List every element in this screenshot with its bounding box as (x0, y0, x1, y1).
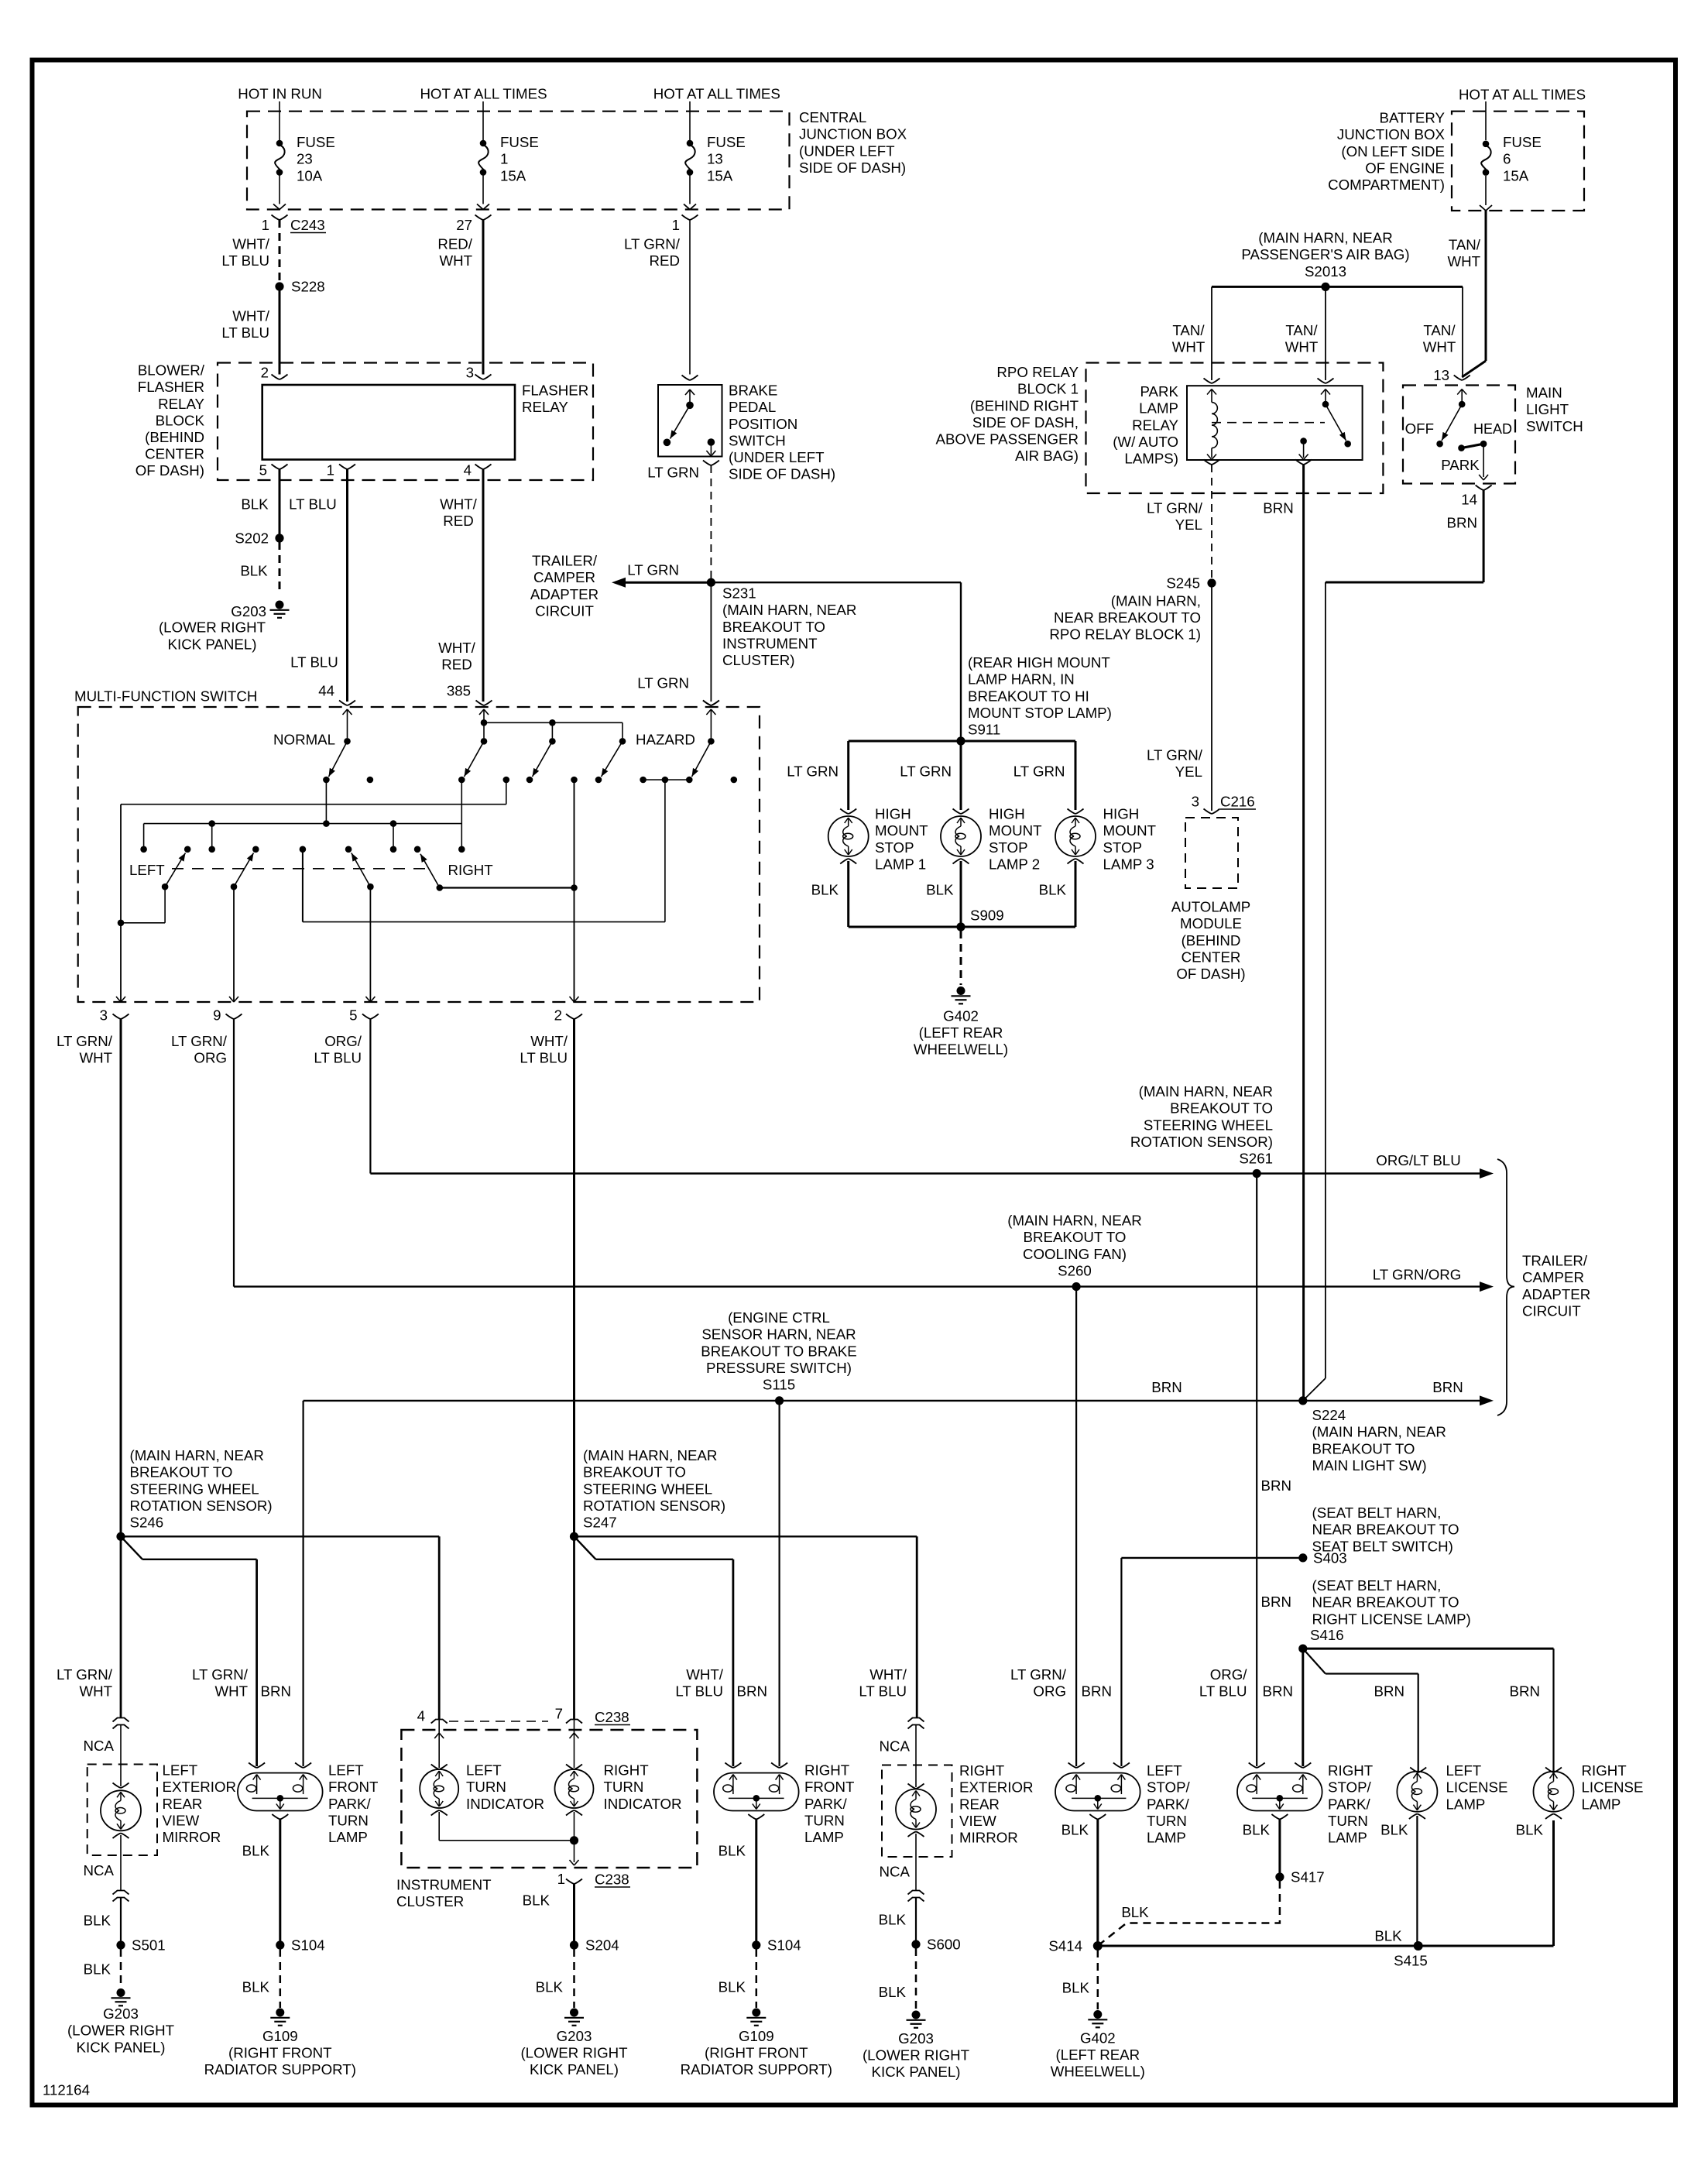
svg-text:LAMP: LAMP (804, 1829, 844, 1845)
svg-text:FLASHER: FLASHER (522, 383, 588, 399)
svg-text:FUSE: FUSE (1503, 134, 1542, 150)
svg-text:ORG: ORG (194, 1050, 227, 1066)
svg-text:G203: G203 (557, 2028, 592, 2044)
svg-text:LT GRN: LT GRN (647, 465, 699, 481)
svg-text:TRAILER/: TRAILER/ (532, 553, 598, 569)
svg-text:S224: S224 (1312, 1407, 1346, 1423)
svg-text:SENSOR HARN, NEAR: SENSOR HARN, NEAR (701, 1326, 856, 1343)
svg-text:BREAKOUT TO: BREAKOUT TO (1170, 1100, 1273, 1117)
svg-text:WHEELWELL): WHEELWELL) (1051, 2064, 1145, 2080)
svg-text:BLK: BLK (1039, 882, 1067, 898)
svg-text:RIGHT LICENSE LAMP): RIGHT LICENSE LAMP) (1312, 1611, 1471, 1627)
svg-text:BLK: BLK (926, 882, 954, 898)
svg-text:RPO RELAY: RPO RELAY (996, 364, 1079, 380)
svg-text:LIGHT: LIGHT (1526, 401, 1569, 417)
svg-text:C243: C243 (290, 217, 325, 233)
svg-text:RELAY: RELAY (1132, 417, 1178, 433)
svg-text:LT BLU: LT BLU (520, 1050, 568, 1066)
svg-text:ROTATION SENSOR): ROTATION SENSOR) (1130, 1134, 1273, 1150)
svg-text:112164: 112164 (43, 2082, 90, 2098)
svg-text:CIRCUIT: CIRCUIT (1522, 1302, 1581, 1319)
svg-text:LAMP: LAMP (328, 1829, 368, 1845)
svg-text:KICK PANEL): KICK PANEL) (530, 2061, 619, 2078)
svg-text:LT GRN/: LT GRN/ (57, 1666, 113, 1683)
svg-text:TURN: TURN (1328, 1813, 1368, 1829)
svg-text:PASSENGER'S AIR BAG): PASSENGER'S AIR BAG) (1241, 246, 1409, 262)
svg-text:CENTER: CENTER (1182, 949, 1241, 965)
svg-text:SIDE OF DASH): SIDE OF DASH) (729, 466, 835, 482)
svg-text:(W/ AUTO: (W/ AUTO (1113, 434, 1178, 450)
svg-text:WHT: WHT (1423, 339, 1456, 355)
svg-text:5: 5 (259, 462, 267, 479)
svg-text:S501: S501 (132, 1937, 166, 1954)
svg-text:LT BLU: LT BLU (290, 654, 338, 671)
svg-text:G203: G203 (103, 2005, 139, 2022)
svg-text:LT GRN: LT GRN (900, 763, 952, 780)
svg-text:(BEHIND: (BEHIND (1182, 932, 1241, 949)
svg-text:TURN: TURN (804, 1812, 845, 1828)
svg-text:LT BLU: LT BLU (221, 252, 269, 269)
svg-text:S104: S104 (767, 1937, 801, 1954)
svg-text:NEAR BREAKOUT TO: NEAR BREAKOUT TO (1312, 1594, 1459, 1611)
svg-text:C216: C216 (1220, 794, 1255, 810)
svg-text:SIDE OF DASH,: SIDE OF DASH, (972, 414, 1079, 431)
svg-text:S415: S415 (1394, 1953, 1428, 1969)
svg-text:INSTRUMENT: INSTRUMENT (396, 1877, 492, 1893)
svg-text:5: 5 (349, 1007, 357, 1024)
svg-text:(ON LEFT SIDE: (ON LEFT SIDE (1341, 143, 1445, 160)
svg-text:NCA: NCA (84, 1738, 115, 1754)
svg-text:S416: S416 (1310, 1627, 1344, 1643)
svg-text:FLASHER: FLASHER (138, 379, 204, 395)
svg-text:TURN: TURN (1147, 1813, 1187, 1829)
svg-text:JUNCTION BOX: JUNCTION BOX (1337, 126, 1446, 142)
svg-text:BLK: BLK (84, 1961, 111, 1978)
svg-text:LAMP: LAMP (1582, 1796, 1621, 1812)
svg-text:RED: RED (650, 252, 680, 269)
svg-text:LT GRN/: LT GRN/ (171, 1033, 228, 1049)
svg-text:1: 1 (557, 1871, 565, 1887)
svg-text:BREAKOUT TO: BREAKOUT TO (1024, 1229, 1127, 1245)
svg-text:BREAKOUT TO: BREAKOUT TO (1312, 1440, 1415, 1456)
svg-text:BRN: BRN (1263, 500, 1293, 516)
svg-text:BLK: BLK (1243, 1822, 1271, 1838)
svg-text:EXTERIOR: EXTERIOR (163, 1779, 237, 1795)
svg-text:BRN: BRN (1263, 1683, 1293, 1700)
svg-text:(LEFT REAR: (LEFT REAR (919, 1024, 1003, 1041)
svg-text:PARK: PARK (1140, 383, 1178, 400)
svg-text:BRN: BRN (261, 1683, 291, 1700)
svg-text:PARK/: PARK/ (328, 1796, 372, 1812)
svg-text:RELAY: RELAY (522, 399, 568, 415)
svg-text:(LOWER RIGHT: (LOWER RIGHT (863, 2047, 969, 2064)
svg-text:SWITCH: SWITCH (1526, 418, 1583, 434)
svg-text:(MAIN HARN, NEAR: (MAIN HARN, NEAR (583, 1447, 717, 1463)
svg-text:NCA: NCA (880, 1738, 911, 1755)
svg-text:BRAKE: BRAKE (729, 383, 777, 399)
svg-text:PARK/: PARK/ (1328, 1796, 1371, 1812)
svg-text:(RIGHT FRONT: (RIGHT FRONT (228, 2045, 332, 2061)
svg-text:RADIATOR SUPPORT): RADIATOR SUPPORT) (204, 2061, 356, 2078)
svg-text:LT GRN/: LT GRN/ (1010, 1666, 1067, 1683)
svg-text:LEFT: LEFT (1446, 1762, 1482, 1779)
svg-text:S115: S115 (763, 1377, 795, 1393)
svg-text:RIGHT: RIGHT (804, 1762, 849, 1779)
svg-text:WHT/: WHT/ (530, 1033, 568, 1049)
svg-text:S247: S247 (583, 1515, 617, 1531)
svg-text:ABOVE PASSENGER: ABOVE PASSENGER (935, 431, 1079, 448)
svg-text:3: 3 (1192, 794, 1199, 810)
svg-text:LAMP: LAMP (1446, 1796, 1486, 1812)
svg-text:MOUNT: MOUNT (875, 822, 928, 839)
svg-text:(UNDER LEFT: (UNDER LEFT (729, 449, 825, 465)
svg-text:BLK: BLK (811, 882, 839, 898)
svg-text:BLK: BLK (242, 1979, 270, 1995)
svg-text:LAMPS): LAMPS) (1124, 451, 1178, 467)
svg-text:BLK: BLK (879, 1984, 907, 2000)
svg-text:KICK PANEL): KICK PANEL) (77, 2040, 166, 2056)
svg-text:23: 23 (297, 151, 313, 167)
svg-text:BLK: BLK (536, 1979, 564, 1995)
svg-text:OF DASH): OF DASH) (135, 462, 204, 479)
svg-text:LT GRN/: LT GRN/ (1147, 747, 1203, 763)
svg-text:RPO RELAY BLOCK 1): RPO RELAY BLOCK 1) (1049, 626, 1201, 643)
svg-text:BLK: BLK (523, 1892, 550, 1909)
svg-text:(LOWER RIGHT: (LOWER RIGHT (67, 2023, 174, 2039)
svg-text:LT BLU: LT BLU (675, 1683, 723, 1700)
svg-text:FUSE: FUSE (500, 134, 539, 150)
svg-text:CENTER: CENTER (145, 446, 204, 462)
svg-text:1: 1 (672, 217, 680, 233)
svg-text:RIGHT: RIGHT (1328, 1762, 1373, 1779)
svg-text:VIEW: VIEW (959, 1813, 996, 1829)
svg-text:CLUSTER: CLUSTER (396, 1893, 464, 1909)
svg-text:BLOCK: BLOCK (156, 412, 205, 428)
svg-text:(RIGHT FRONT: (RIGHT FRONT (705, 2045, 808, 2061)
svg-text:(MAIN HARN, NEAR: (MAIN HARN, NEAR (722, 602, 856, 618)
svg-text:BLOCK 1: BLOCK 1 (1017, 381, 1079, 397)
svg-text:LT GRN: LT GRN (1013, 763, 1065, 780)
svg-text:HEAD: HEAD (1473, 421, 1512, 437)
svg-text:TURN: TURN (604, 1779, 644, 1795)
svg-text:FUSE: FUSE (707, 134, 746, 150)
svg-text:TAN/: TAN/ (1172, 322, 1205, 338)
svg-text:MODULE: MODULE (1180, 915, 1242, 932)
svg-text:RIGHT: RIGHT (604, 1762, 649, 1779)
svg-text:(BEHIND RIGHT: (BEHIND RIGHT (970, 397, 1079, 413)
svg-text:(MAIN HARN,: (MAIN HARN, (1111, 592, 1201, 609)
svg-text:BLK: BLK (719, 1979, 746, 1995)
svg-text:HOT IN RUN: HOT IN RUN (238, 86, 322, 102)
svg-text:SEAT BELT SWITCH): SEAT BELT SWITCH) (1312, 1538, 1453, 1554)
svg-text:1: 1 (327, 462, 334, 479)
svg-text:HAZARD: HAZARD (636, 732, 695, 748)
svg-text:9: 9 (213, 1007, 221, 1024)
svg-text:ROTATION SENSOR): ROTATION SENSOR) (583, 1498, 725, 1514)
svg-text:BRN: BRN (1082, 1683, 1112, 1700)
svg-text:HIGH: HIGH (1103, 806, 1140, 822)
svg-text:LT GRN/ORG: LT GRN/ORG (1373, 1267, 1462, 1283)
svg-text:13: 13 (1433, 367, 1449, 383)
svg-text:SIDE OF DASH): SIDE OF DASH) (799, 160, 906, 176)
svg-text:15A: 15A (707, 167, 733, 184)
svg-text:BATTERY: BATTERY (1380, 110, 1446, 126)
svg-text:385: 385 (447, 683, 471, 699)
svg-text:1: 1 (500, 151, 508, 167)
svg-text:AIR BAG): AIR BAG) (1015, 448, 1079, 464)
svg-text:(ENGINE CTRL: (ENGINE CTRL (728, 1309, 830, 1326)
svg-text:LEFT: LEFT (129, 862, 165, 878)
svg-text:(MAIN HARN, NEAR: (MAIN HARN, NEAR (1312, 1424, 1446, 1440)
svg-text:S260: S260 (1058, 1262, 1092, 1278)
svg-text:PARK/: PARK/ (804, 1796, 848, 1812)
svg-text:CIRCUIT: CIRCUIT (535, 602, 594, 619)
svg-text:MOUNT STOP LAMP): MOUNT STOP LAMP) (968, 705, 1112, 721)
svg-text:LAMP 2: LAMP 2 (989, 856, 1040, 872)
svg-text:LICENSE: LICENSE (1582, 1779, 1644, 1796)
svg-text:BLK: BLK (1374, 1928, 1402, 1944)
svg-text:BREAKOUT TO HI: BREAKOUT TO HI (968, 688, 1089, 704)
svg-text:BREAKOUT TO: BREAKOUT TO (130, 1464, 233, 1481)
svg-text:BLK: BLK (240, 563, 268, 579)
svg-text:3: 3 (100, 1007, 108, 1024)
svg-text:LEFT: LEFT (466, 1762, 502, 1779)
svg-text:BRN: BRN (1374, 1683, 1404, 1700)
svg-text:HOT AT ALL TIMES: HOT AT ALL TIMES (1459, 86, 1586, 102)
svg-text:BLK: BLK (1380, 1822, 1408, 1838)
svg-text:BRN: BRN (1151, 1379, 1182, 1395)
svg-text:(REAR HIGH MOUNT: (REAR HIGH MOUNT (968, 654, 1110, 671)
svg-text:BLK: BLK (84, 1913, 111, 1929)
svg-text:RELAY: RELAY (158, 396, 204, 412)
svg-text:14: 14 (1461, 492, 1477, 508)
svg-text:G203: G203 (898, 2030, 934, 2047)
svg-text:S202: S202 (235, 530, 269, 547)
svg-text:(LOWER RIGHT: (LOWER RIGHT (159, 619, 266, 636)
svg-text:ROTATION SENSOR): ROTATION SENSOR) (130, 1498, 273, 1514)
svg-text:STOP: STOP (989, 839, 1028, 856)
svg-text:S246: S246 (130, 1515, 164, 1531)
svg-text:4: 4 (417, 1708, 425, 1724)
svg-text:STEERING WHEEL: STEERING WHEEL (583, 1481, 712, 1497)
svg-text:WHT: WHT (1285, 339, 1319, 355)
svg-text:BLK: BLK (241, 496, 269, 513)
svg-text:6: 6 (1503, 151, 1511, 167)
svg-text:YEL: YEL (1175, 516, 1202, 533)
svg-text:STOP/: STOP/ (1328, 1779, 1372, 1796)
svg-text:BREAKOUT TO: BREAKOUT TO (722, 619, 825, 635)
svg-text:LT BLU: LT BLU (314, 1050, 362, 1066)
svg-text:STEERING WHEEL: STEERING WHEEL (130, 1481, 259, 1497)
svg-text:ORG: ORG (1033, 1683, 1066, 1700)
svg-text:JUNCTION BOX: JUNCTION BOX (799, 126, 907, 142)
svg-text:RED: RED (441, 657, 472, 673)
svg-text:(MAIN HARN, NEAR: (MAIN HARN, NEAR (1258, 230, 1392, 246)
svg-text:(SEAT BELT HARN,: (SEAT BELT HARN, (1312, 1577, 1442, 1594)
svg-text:S231: S231 (722, 585, 756, 602)
svg-text:EXTERIOR: EXTERIOR (959, 1779, 1034, 1796)
svg-text:C238: C238 (595, 1872, 629, 1888)
svg-text:BLK: BLK (1516, 1822, 1544, 1838)
svg-text:TURN: TURN (466, 1779, 506, 1795)
svg-text:CLUSTER): CLUSTER) (722, 652, 794, 668)
svg-text:ADAPTER: ADAPTER (530, 586, 598, 602)
svg-text:INDICATOR: INDICATOR (466, 1796, 544, 1812)
svg-text:BLK: BLK (242, 1843, 270, 1859)
svg-text:YEL: YEL (1175, 763, 1202, 780)
svg-text:PARK/: PARK/ (1147, 1796, 1190, 1812)
svg-text:(LOWER RIGHT: (LOWER RIGHT (520, 2045, 627, 2061)
svg-text:2: 2 (554, 1007, 562, 1024)
svg-text:CAMPER: CAMPER (1522, 1269, 1584, 1285)
svg-text:BLK: BLK (1121, 1904, 1149, 1920)
svg-text:LT BLU: LT BLU (1199, 1683, 1247, 1700)
svg-text:S600: S600 (927, 1937, 961, 1953)
svg-text:CAMPER: CAMPER (533, 569, 595, 585)
svg-text:STOP: STOP (875, 839, 914, 856)
svg-text:C238: C238 (595, 1709, 629, 1725)
svg-text:S2013: S2013 (1305, 263, 1346, 280)
svg-text:COMPARTMENT): COMPARTMENT) (1328, 177, 1445, 193)
svg-text:INDICATOR: INDICATOR (604, 1796, 682, 1812)
svg-text:TURN: TURN (328, 1812, 369, 1828)
svg-text:LT GRN/: LT GRN/ (57, 1033, 113, 1049)
svg-text:PEDAL: PEDAL (729, 399, 776, 415)
svg-text:MIRROR: MIRROR (959, 1830, 1018, 1846)
svg-text:G402: G402 (1080, 2030, 1116, 2047)
svg-text:BRN: BRN (1432, 1379, 1463, 1395)
svg-text:LAMP: LAMP (1139, 400, 1178, 417)
svg-text:10A: 10A (297, 167, 323, 184)
svg-text:LT GRN: LT GRN (627, 562, 679, 578)
svg-text:S414: S414 (1048, 1938, 1082, 1954)
svg-text:27: 27 (456, 217, 472, 233)
svg-text:RADIATOR SUPPORT): RADIATOR SUPPORT) (681, 2061, 832, 2078)
svg-text:INSTRUMENT: INSTRUMENT (722, 635, 818, 651)
svg-text:44: 44 (318, 683, 334, 699)
svg-text:WHT/: WHT/ (440, 496, 478, 513)
svg-text:HIGH: HIGH (989, 806, 1025, 822)
svg-text:MOUNT: MOUNT (989, 822, 1042, 839)
svg-text:NEAR BREAKOUT TO: NEAR BREAKOUT TO (1312, 1522, 1459, 1538)
svg-text:(MAIN HARN, NEAR: (MAIN HARN, NEAR (1007, 1213, 1141, 1229)
svg-text:WHT/: WHT/ (869, 1666, 907, 1683)
svg-text:BRN: BRN (1261, 1477, 1291, 1494)
svg-text:(LEFT REAR: (LEFT REAR (1055, 2047, 1140, 2063)
svg-text:SWITCH: SWITCH (729, 432, 786, 448)
svg-text:BREAKOUT TO: BREAKOUT TO (583, 1464, 686, 1481)
svg-text:7: 7 (555, 1706, 563, 1722)
svg-text:TAN/: TAN/ (1423, 322, 1456, 338)
svg-text:LT GRN: LT GRN (637, 675, 689, 691)
svg-text:WHT: WHT (214, 1683, 248, 1700)
svg-text:WHT: WHT (79, 1050, 112, 1066)
svg-text:RIGHT: RIGHT (959, 1762, 1004, 1779)
svg-text:WHT/: WHT/ (686, 1666, 724, 1683)
svg-text:BREAKOUT TO BRAKE: BREAKOUT TO BRAKE (701, 1343, 856, 1359)
svg-text:STOP: STOP (1103, 839, 1143, 856)
svg-text:PARK: PARK (1441, 457, 1480, 473)
svg-text:(MAIN HARN, NEAR: (MAIN HARN, NEAR (1139, 1083, 1273, 1100)
svg-text:S204: S204 (585, 1937, 619, 1954)
svg-text:FUSE: FUSE (297, 134, 335, 150)
svg-text:LEFT: LEFT (328, 1762, 364, 1779)
svg-text:BLK: BLK (1061, 1822, 1089, 1838)
svg-text:OFF: OFF (1405, 420, 1434, 437)
svg-text:3: 3 (466, 365, 474, 381)
svg-text:S261: S261 (1239, 1151, 1273, 1167)
svg-text:1: 1 (262, 217, 269, 233)
svg-text:REAR: REAR (959, 1796, 1000, 1812)
svg-text:KICK PANEL): KICK PANEL) (872, 2064, 961, 2080)
svg-text:BRN: BRN (1261, 1594, 1291, 1610)
svg-text:FRONT: FRONT (804, 1779, 854, 1795)
svg-text:FRONT: FRONT (328, 1779, 378, 1795)
svg-text:G203: G203 (231, 603, 266, 619)
svg-text:NCA: NCA (84, 1862, 115, 1879)
svg-text:KICK PANEL): KICK PANEL) (168, 636, 257, 653)
svg-text:2: 2 (261, 365, 269, 381)
svg-text:(MAIN HARN, NEAR: (MAIN HARN, NEAR (130, 1447, 264, 1463)
svg-text:LEFT: LEFT (163, 1762, 198, 1779)
svg-text:S228: S228 (291, 279, 325, 295)
svg-text:OF DASH): OF DASH) (1176, 966, 1245, 982)
svg-text:BRN: BRN (1510, 1683, 1540, 1700)
svg-text:(BEHIND: (BEHIND (145, 429, 204, 445)
svg-text:BRN: BRN (737, 1683, 767, 1700)
svg-text:CENTRAL: CENTRAL (799, 109, 866, 125)
svg-text:RIGHT: RIGHT (448, 862, 493, 878)
svg-text:WHT/: WHT/ (232, 308, 270, 324)
svg-text:BLK: BLK (879, 1912, 907, 1928)
svg-text:ORG/LT BLU: ORG/LT BLU (1376, 1152, 1460, 1168)
svg-text:S909: S909 (970, 908, 1004, 924)
svg-text:HOT AT ALL TIMES: HOT AT ALL TIMES (653, 86, 780, 102)
svg-text:WHT/: WHT/ (232, 236, 270, 252)
svg-text:TAN/: TAN/ (1285, 322, 1318, 338)
svg-text:BRN: BRN (1447, 515, 1477, 531)
svg-text:MIRROR: MIRROR (163, 1829, 221, 1845)
svg-text:RED: RED (443, 513, 473, 529)
svg-text:LEFT: LEFT (1147, 1762, 1182, 1779)
svg-text:RED/: RED/ (437, 236, 472, 252)
svg-text:POSITION: POSITION (729, 416, 797, 432)
svg-text:WHT: WHT (79, 1683, 112, 1700)
svg-text:TAN/: TAN/ (1449, 237, 1481, 253)
svg-text:HIGH: HIGH (875, 806, 911, 822)
svg-text:LICENSE: LICENSE (1446, 1779, 1508, 1796)
svg-text:TRAILER/: TRAILER/ (1522, 1253, 1588, 1269)
svg-text:NORMAL: NORMAL (273, 732, 335, 748)
svg-text:STOP/: STOP/ (1147, 1779, 1191, 1796)
svg-text:LAMP HARN, IN: LAMP HARN, IN (968, 671, 1075, 688)
svg-text:LT GRN/: LT GRN/ (192, 1666, 249, 1683)
svg-text:COOLING FAN): COOLING FAN) (1023, 1246, 1127, 1262)
svg-text:MOUNT: MOUNT (1103, 822, 1157, 839)
svg-text:LAMP: LAMP (1328, 1830, 1367, 1846)
svg-text:ORG/: ORG/ (324, 1033, 362, 1049)
svg-text:LT GRN: LT GRN (787, 763, 839, 780)
svg-text:BLK: BLK (719, 1843, 746, 1859)
svg-text:S104: S104 (291, 1937, 325, 1954)
svg-text:AUTOLAMP: AUTOLAMP (1171, 899, 1250, 915)
svg-text:HOT AT ALL TIMES: HOT AT ALL TIMES (420, 86, 547, 102)
svg-text:G402: G402 (943, 1008, 979, 1024)
svg-text:OF ENGINE: OF ENGINE (1365, 160, 1445, 176)
svg-text:STEERING WHEEL: STEERING WHEEL (1144, 1117, 1273, 1133)
svg-text:4: 4 (464, 462, 472, 479)
svg-text:PRESSURE SWITCH): PRESSURE SWITCH) (706, 1360, 852, 1376)
